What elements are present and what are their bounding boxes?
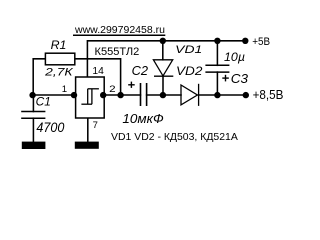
wire: C3 top lead to rail [216,41,218,66]
diode VD2 (horizontal, pointing right) [181,84,199,106]
ground under C1 [22,142,46,149]
svg-text:C2: C2 [132,63,149,78]
junction node: R1 feedback tap [117,92,123,98]
wire: pin 2 to C2 left plate [104,94,141,96]
diode VD1 (vertical, anode up) [153,60,173,76]
terminal node: +8.5V output [243,92,249,98]
wire: VD2 cathode to C3 node to +8.5V terminal [199,94,246,96]
svg-text:C1: C1 [36,96,51,109]
svg-text:VD2: VD2 [176,65,203,78]
wire: VD1 bottom lead to pump node [162,76,164,95]
junction node: pin 1 [71,92,77,98]
wire: R1 right lead over to output node (crosses VCC riser) [75,59,121,95]
junction node: pin 2 [100,92,106,98]
junction node: input node at C1 [29,92,35,98]
plus mark of C3 [222,75,229,82]
svg-text:4700: 4700 [36,119,64,135]
svg-text:7: 7 [93,120,98,131]
wire: C1 top lead [32,95,34,112]
ground under pin 7 [75,142,99,149]
capacitor C2 [141,83,147,106]
svg-text:14: 14 [92,66,104,77]
svg-text:К555ТЛ2: К555ТЛ2 [95,46,140,58]
svg-text:R1: R1 [51,40,67,52]
wire: VD1 top lead from rail [162,41,164,60]
junction node: VD2 cathode / C3 [214,92,220,98]
wire: R1 left lead and left rail down to input node [33,59,45,95]
svg-text:VD1: VD1 [175,44,202,56]
svg-text:2: 2 [109,83,116,94]
svg-text:VD1 VD2 - КД503, КД521А: VD1 VD2 - КД503, КД521А [111,131,238,143]
plus mark of C2 [128,82,135,88]
wire: C3 bottom lead to output row [216,72,218,95]
terminal node: +5V supply [242,38,248,44]
op-amp U1: K555TL2 Schmitt inverter box [76,77,105,118]
svg-text:10µ: 10µ [224,52,245,64]
svg-text:10мкФ: 10мкФ [122,111,163,126]
capacitor C1 [21,112,45,119]
wire: C2 right plate to VD2 anode through VD1 node [147,94,181,96]
svg-text:1: 1 [62,84,67,95]
wire: pin 7 to ground [87,118,89,142]
wire: C1 bottom lead to ground [32,118,34,141]
junction node: C3 on rail [214,38,220,44]
junction node: VD1 on rail [160,38,166,44]
capacitor C3 [205,65,229,72]
svg-text:2,7К: 2,7К [44,66,74,78]
svg-text:+8,5В: +8,5В [253,88,284,102]
wire: input node to pin 1 [32,94,75,96]
underline of watermark [73,34,165,36]
svg-text:www.299792458.ru: www.299792458.ru [74,25,165,36]
svg-text:+5В: +5В [252,36,270,48]
wire: pin14 riser and +5V top rail [87,41,245,77]
hysteresis symbol inside U1 [81,89,99,104]
svg-text:C3: C3 [231,72,248,86]
junction node: pump node at VD1/C2 [160,92,166,98]
resistor R1 [45,53,74,65]
